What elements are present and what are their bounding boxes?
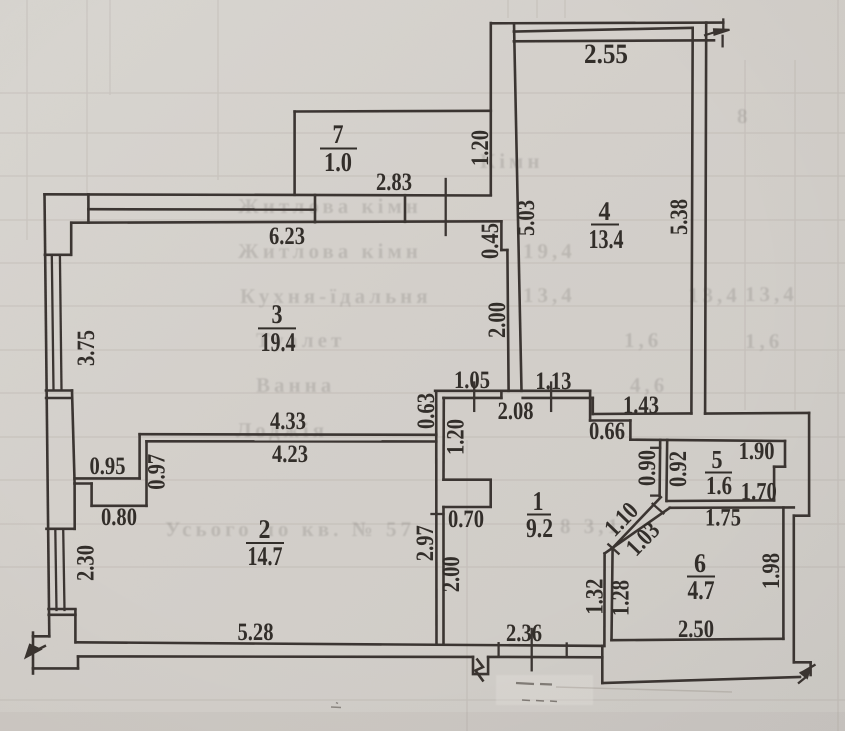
svg-text:13.4: 13.4 xyxy=(589,224,624,254)
room 5 top line xyxy=(630,440,785,441)
dimension tick for 2.36 xyxy=(531,629,533,670)
svg-text:2.55: 2.55 xyxy=(584,39,628,70)
svg-text:13,4: 13,4 xyxy=(523,283,576,307)
dimension tick 1.13/2.08 xyxy=(550,383,552,411)
svg-text:0.70: 0.70 xyxy=(448,506,484,533)
room 6 top line xyxy=(670,506,794,509)
bottom edge shading xyxy=(0,712,845,731)
diagonal tick lower xyxy=(608,544,618,553)
wall: room4 right inner line xyxy=(691,28,692,414)
stub upper on room5 wall xyxy=(651,447,660,449)
wall: top exterior outer line xyxy=(45,194,491,195)
balcony rail outer end tick xyxy=(722,20,724,31)
room 5 right step vertical lower xyxy=(773,467,776,501)
wall room3/room4 inner line upper xyxy=(500,221,503,250)
svg-text:2: 2 xyxy=(259,514,271,544)
pencil dashes on whiteout xyxy=(516,683,557,702)
window W2 top jamb xyxy=(47,527,75,530)
window W1 bottom jamb xyxy=(46,389,72,392)
room 6 bottom line xyxy=(612,639,784,640)
door tick right xyxy=(566,644,568,656)
wall room1/room5 right line xyxy=(665,440,668,501)
1.43 line upturn xyxy=(591,398,594,414)
bottom-left outer horizontal with serif xyxy=(33,667,78,670)
svg-text:9.2: 9.2 xyxy=(526,513,553,543)
svg-text:13,4: 13,4 xyxy=(745,282,798,306)
whiteout patch under entrance xyxy=(496,675,593,705)
room4 bottom step stub xyxy=(590,397,593,400)
wall room3/room4 corner stub xyxy=(500,391,503,398)
right outer wall top horizontal xyxy=(705,412,809,415)
pier on room1 left wall xyxy=(444,480,491,507)
svg-text:1,6: 1,6 xyxy=(745,329,783,353)
wall: room4 right outer line xyxy=(705,23,706,414)
bottom wall outer line (below 5.28) xyxy=(78,655,473,658)
svg-text:6: 6 xyxy=(694,548,706,578)
svg-text:6.23: 6.23 xyxy=(269,223,305,250)
svg-text:1,6: 1,6 xyxy=(624,328,662,352)
room 7 fraction line xyxy=(320,148,357,150)
svg-text:1.20: 1.20 xyxy=(467,130,494,166)
diagonal wall line A xyxy=(613,497,661,548)
svg-text:13,4: 13,4 xyxy=(688,283,741,307)
room 2 fraction line xyxy=(246,542,284,544)
door tick left xyxy=(497,643,499,656)
diagonal tick upper xyxy=(653,504,664,514)
wall room3/room4 middle line xyxy=(507,250,508,391)
wall line 0.66 xyxy=(590,419,630,422)
niche step vertical xyxy=(90,484,93,506)
balcony rail inner end tick xyxy=(721,36,723,47)
balcony rail outer xyxy=(491,21,724,24)
svg-text:1.70: 1.70 xyxy=(741,479,777,506)
room 6 right inner line xyxy=(782,508,785,639)
wall: top exterior inner line (room 3 ceiling face) xyxy=(71,221,501,222)
wall room2/room3 bottom line (4.23) xyxy=(147,440,437,443)
svg-text:5.03: 5.03 xyxy=(513,200,540,236)
tick on room1 left wall xyxy=(432,513,444,515)
svg-text:2.08: 2.08 xyxy=(498,398,534,425)
svg-text:0.66: 0.66 xyxy=(589,418,625,445)
diagonal wall line B xyxy=(605,508,670,554)
svg-text:1.28: 1.28 xyxy=(608,580,635,616)
bottom wall inner line (room 2 / room 1 floor face) xyxy=(76,642,604,646)
svg-text:1.0: 1.0 xyxy=(324,147,352,177)
svg-text:1.43: 1.43 xyxy=(623,392,659,419)
window W1 top jamb xyxy=(45,254,71,257)
svg-text:1.75: 1.75 xyxy=(705,505,741,532)
svg-text:1.6: 1.6 xyxy=(706,471,732,500)
entrance break U-notch xyxy=(473,657,488,674)
svg-text:2.30: 2.30 xyxy=(73,545,100,581)
svg-text:Житлова кімн: Житлова кімн xyxy=(238,239,422,263)
wall: top exterior middle line xyxy=(88,208,315,211)
porch left vertical xyxy=(601,646,604,683)
step up to bottom wall outer line xyxy=(77,657,80,669)
wall: corridor top inner line left xyxy=(443,397,501,400)
wall room6 left inner line xyxy=(612,548,613,640)
svg-text:1.90: 1.90 xyxy=(739,438,775,465)
svg-text:4.7: 4.7 xyxy=(688,575,715,605)
tiny pencil marks bottom xyxy=(331,703,341,708)
svg-text:14.7: 14.7 xyxy=(248,541,283,571)
svg-text:1.05: 1.05 xyxy=(454,367,490,394)
svg-text:2.50: 2.50 xyxy=(678,616,714,643)
wall: left inner face above window W1 xyxy=(70,223,73,255)
dimension tick for 2.83 xyxy=(445,179,447,235)
svg-text:3.75: 3.75 xyxy=(73,330,100,366)
svg-text:19.4: 19.4 xyxy=(261,327,296,357)
svg-text:5.38: 5.38 xyxy=(666,199,693,235)
svg-text:4: 4 xyxy=(599,196,611,226)
room 5 right step vertical upper xyxy=(784,441,787,467)
niche vertical x=146.5 xyxy=(145,441,148,506)
svg-text:2.36: 2.36 xyxy=(506,620,542,647)
svg-text:1: 1 xyxy=(533,486,544,516)
svg-text:Житлова кімн: Житлова кімн xyxy=(238,194,422,218)
wall joint: vertical divider x=405 xyxy=(404,195,407,222)
svg-text:8: 8 xyxy=(737,104,752,128)
svg-text:2.97: 2.97 xyxy=(412,525,439,561)
break mark at entrance xyxy=(476,659,484,682)
stub lower on room5 wall xyxy=(651,494,659,496)
room 7 top line xyxy=(295,110,491,113)
balcony rail middle xyxy=(514,28,693,32)
window W2 bottom jamb second line xyxy=(49,613,76,616)
break mark bottom-right xyxy=(798,665,816,684)
niche step horizontal xyxy=(75,482,92,485)
svg-text:1.13: 1.13 xyxy=(535,368,571,395)
svg-text:1.98: 1.98 xyxy=(758,553,785,589)
wall: room1 left (room1 side) upper line xyxy=(442,398,445,480)
right outer wall step xyxy=(794,514,809,517)
bottom-left corner step horizontal xyxy=(33,635,49,638)
wall: left inner face below W2 xyxy=(74,610,77,642)
room 3 fraction line xyxy=(258,327,296,329)
wall room6 left outer line xyxy=(603,553,606,646)
room 5 fraction line xyxy=(705,472,732,474)
room 5 bottom line xyxy=(667,499,774,502)
svg-text:2.83: 2.83 xyxy=(376,169,412,196)
window W1 pane line b xyxy=(60,255,62,390)
svg-text:4.33: 4.33 xyxy=(270,408,306,435)
room 1 fraction line xyxy=(527,514,551,516)
svg-text:19,4: 19,4 xyxy=(523,239,576,263)
wall: corridor top inner line right xyxy=(523,397,590,400)
svg-text:0.95: 0.95 xyxy=(90,453,126,480)
svg-text:0.63: 0.63 xyxy=(413,393,440,429)
bottom-right corner vertical xyxy=(809,662,812,675)
room4 bottom step vertical xyxy=(589,391,592,421)
window W2 bottom jamb xyxy=(49,608,76,611)
break mark top-right (balcony) xyxy=(704,29,730,35)
bottom-left corner serif up xyxy=(32,633,35,637)
wall: left inner face between W1 and niche xyxy=(72,391,75,484)
wall: left inner face above window W2 xyxy=(73,484,76,529)
svg-text:0.80: 0.80 xyxy=(101,504,137,531)
wall joint: vertical divider x=315 xyxy=(314,195,317,222)
balcony rail inner xyxy=(514,40,714,41)
window W2 pane line a xyxy=(55,529,56,610)
room 5 right step horizontal xyxy=(774,465,785,468)
dimension tick 1.05/2.08 xyxy=(473,383,475,411)
balcony outer left line xyxy=(489,23,492,195)
niche vertical x=139.6 xyxy=(138,434,141,478)
wall room3/room4 room4-side face xyxy=(514,24,522,391)
svg-text:7: 7 xyxy=(333,119,344,149)
room 4 fraction line xyxy=(591,224,619,226)
break mark bottom-left xyxy=(26,645,46,657)
wall room1/room5 left line xyxy=(658,440,661,496)
svg-text:Кухня-їдальня: Кухня-їдальня xyxy=(240,284,432,308)
right outer wall lower vertical xyxy=(792,516,795,663)
svg-text:5: 5 xyxy=(712,445,723,474)
svg-text:2.00: 2.00 xyxy=(484,302,511,338)
svg-text:3: 3 xyxy=(272,299,283,329)
svg-text:1.20: 1.20 xyxy=(442,419,469,455)
room 7 left line xyxy=(293,112,296,195)
svg-text:4.23: 4.23 xyxy=(272,441,308,468)
room 6 fraction line xyxy=(687,576,715,578)
wall: left exterior outer line xyxy=(45,194,50,636)
svg-text:1.32: 1.32 xyxy=(581,579,608,615)
0.66 step down xyxy=(629,421,632,440)
svg-text:0.97: 0.97 xyxy=(144,454,171,490)
bottom-right corner horizontal xyxy=(794,661,811,664)
window W2 pane line b xyxy=(63,529,64,610)
wall: room1 left (room1 side) lower line xyxy=(442,507,445,643)
svg-text:0.45: 0.45 xyxy=(477,223,504,259)
porch bottom line xyxy=(602,677,800,683)
svg-text:5.28: 5.28 xyxy=(238,619,274,646)
niche 0.95 line (room 3 bottom-left) xyxy=(75,477,140,480)
svg-text:Усього по кв. № 57: Усього по кв. № 57 xyxy=(165,517,415,541)
svg-text:2.00: 2.00 xyxy=(438,556,465,592)
niche 0.80 line (room 2 top-left) xyxy=(92,504,147,507)
svg-text:0.90: 0.90 xyxy=(634,450,661,486)
wall: corridor top outer line xyxy=(435,389,590,392)
wall line 1.43 xyxy=(593,412,692,415)
right outer wall upper vertical xyxy=(808,413,811,516)
wall room2/room3 top line (4.33) xyxy=(140,433,437,436)
window W1 bottom jamb second line xyxy=(46,397,72,400)
wall: room1 left (room2 side) line xyxy=(435,391,438,644)
bottom wall outer line right of entrance xyxy=(488,656,602,659)
bottom-left outer vertical xyxy=(32,636,35,668)
wall room3/room4 jog xyxy=(501,249,507,252)
faint bleed-through table text xyxy=(165,104,798,541)
window W1 pane line a xyxy=(52,255,54,390)
svg-text:0.92: 0.92 xyxy=(665,451,692,487)
wall joint: vertical divider x=88 xyxy=(87,194,90,222)
svg-text:Ванна: Ванна xyxy=(256,373,335,397)
